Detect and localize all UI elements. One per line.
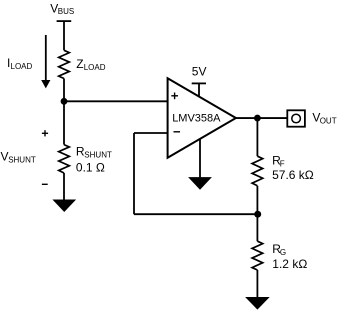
svg-text:SHUNT: SHUNT <box>84 150 112 159</box>
svg-text:G: G <box>280 248 286 257</box>
svg-text:0.1 Ω: 0.1 Ω <box>76 161 105 175</box>
svg-text:BUS: BUS <box>58 7 74 16</box>
svg-text:57.6 kΩ: 57.6 kΩ <box>272 168 314 182</box>
svg-text:LMV358A: LMV358A <box>172 113 221 125</box>
svg-text:5V: 5V <box>192 65 207 79</box>
svg-text:Z: Z <box>76 57 83 71</box>
svg-text:LOAD: LOAD <box>84 63 106 72</box>
svg-text:LOAD: LOAD <box>11 62 33 71</box>
svg-text:1.2 kΩ: 1.2 kΩ <box>272 257 307 271</box>
svg-text:OUT: OUT <box>320 117 337 126</box>
svg-text:F: F <box>280 159 285 168</box>
svg-text:SHUNT: SHUNT <box>8 156 36 165</box>
